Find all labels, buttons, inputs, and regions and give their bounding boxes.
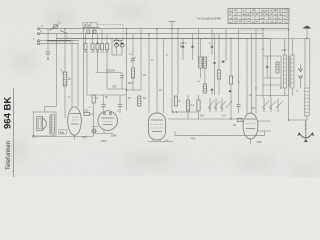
svg-text:400: 400 — [191, 136, 196, 140]
input terminal A2 — [38, 33, 40, 35]
label bracket under transformer — [59, 130, 87, 140]
wire — [288, 24, 290, 120]
wire stub E2 — [40, 43, 79, 45]
wire — [289, 119, 308, 121]
resistor R2 — [91, 29, 95, 54]
tube V4 CY2 — [238, 113, 271, 144]
svg-text:964 BK: 964 BK — [3, 97, 14, 129]
input terminal E2 — [38, 43, 40, 45]
svg-text:A: A — [41, 24, 43, 28]
input terminal A1 — [38, 28, 40, 30]
resistor R11 — [197, 95, 200, 119]
wire — [238, 29, 240, 100]
wire bus 3 — [57, 37, 270, 39]
wire row y=95 — [87, 94, 127, 96]
wire — [198, 29, 200, 62]
svg-text:V: V — [296, 89, 298, 93]
svg-text:0,1: 0,1 — [95, 96, 99, 100]
svg-text:0,5: 0,5 — [222, 114, 226, 118]
wire — [171, 22, 173, 96]
wire — [246, 38, 248, 113]
wire — [262, 29, 264, 98]
capacitor C14 — [101, 95, 105, 111]
wire — [86, 50, 88, 96]
wire speaker feed — [45, 107, 57, 113]
wire — [156, 29, 158, 113]
resistor R5 — [106, 34, 109, 54]
tuning capacitor C2 (dark pair) — [112, 40, 124, 55]
svg-text:360: 360 — [60, 130, 65, 134]
wire — [71, 41, 73, 107]
band switch label box — [83, 23, 123, 40]
svg-text:300/2W: 300/2W — [106, 69, 115, 73]
wire — [270, 38, 272, 98]
resistor R12 — [175, 96, 181, 106]
tube V3 CF7 — [148, 113, 173, 143]
IF transformer T1 — [199, 38, 207, 84]
trimmer C12 — [210, 88, 213, 95]
trimmer C6 — [191, 34, 194, 60]
capacitor C9 — [237, 100, 241, 113]
switch contacts S2 — [208, 98, 232, 112]
svg-text:+C: +C — [261, 47, 265, 51]
trimmer C10 — [213, 34, 216, 95]
wire — [140, 29, 142, 90]
choke L1 — [60, 69, 71, 119]
trimmer C11 — [221, 59, 225, 63]
capacitor C4 top — [169, 21, 176, 23]
svg-text:100: 100 — [84, 109, 89, 113]
rectifier V5 plates — [299, 64, 303, 88]
svg-text:300: 300 — [128, 81, 133, 85]
svg-text:C85: C85 — [257, 140, 262, 144]
wire — [77, 44, 79, 107]
wire — [47, 29, 49, 52]
wire bottom long — [175, 131, 265, 140]
wire — [225, 29, 227, 60]
wire bus 2 — [40, 33, 263, 35]
filter choke L2 — [305, 38, 309, 120]
capacitor C3 (trimmer) — [129, 34, 136, 68]
wire — [64, 29, 66, 72]
svg-text:0,5: 0,5 — [101, 50, 105, 54]
svg-text:Anl.Schaltbild 964BK: Anl.Schaltbild 964BK — [197, 17, 221, 21]
ground anchor — [297, 120, 314, 142]
tube V2 CBL1 — [92, 111, 118, 143]
labels cluster top-mid — [95, 96, 146, 100]
svg-text:350: 350 — [112, 85, 117, 89]
coil L3 — [138, 96, 141, 106]
svg-text:7F9: 7F9 — [82, 136, 87, 140]
trimmer C5 — [180, 38, 187, 60]
wire — [177, 29, 179, 95]
svg-text:0,1: 0,1 — [191, 103, 195, 107]
contact dots — [172, 111, 174, 113]
wire — [256, 95, 289, 97]
resistor R13 — [84, 109, 90, 116]
resistor R10 — [186, 95, 194, 119]
mains transformer T2 secondary — [288, 38, 294, 95]
wire right edge — [309, 38, 311, 88]
wire — [56, 34, 58, 107]
wire — [83, 29, 85, 113]
svg-text:0,1: 0,1 — [58, 21, 62, 25]
svg-text:1M: 1M — [200, 114, 204, 118]
resistor R4 — [101, 29, 105, 54]
capacitor C15 — [120, 73, 124, 90]
svg-text:mA: mA — [92, 129, 96, 133]
resistor R6 — [128, 68, 135, 90]
wire link — [127, 89, 142, 91]
svg-text:E: E — [40, 30, 42, 34]
switch contacts S3 — [262, 98, 283, 112]
title label Telefunken 964 BK (rotated, left margin) — [3, 88, 14, 177]
wire — [251, 34, 253, 114]
wire under-table — [240, 29, 288, 31]
wire — [111, 38, 113, 55]
terminal labels — [33, 24, 43, 41]
wire — [163, 38, 165, 113]
scattered value labels — [58, 21, 299, 128]
trimmer C13 — [228, 90, 231, 92]
coupling caps on bus — [87, 30, 96, 33]
IF coil L4 — [197, 80, 207, 93]
trimmer C7 — [209, 29, 214, 55]
svg-text:1364: 1364 — [111, 133, 117, 137]
svg-text:Telefunken: Telefunken — [6, 141, 12, 170]
resistor R1 — [84, 34, 87, 54]
input terminal E1 — [38, 40, 40, 42]
wire — [148, 34, 150, 113]
svg-text:Dr: Dr — [68, 77, 71, 81]
loudspeaker with output transformer — [33, 112, 56, 136]
svg-text:2M: 2M — [91, 50, 95, 54]
resistor R9 — [90, 95, 96, 136]
wire — [171, 95, 173, 112]
svg-text:CBW: CBW — [101, 139, 108, 143]
resistor R3 — [96, 34, 100, 54]
resistor R8 — [229, 38, 232, 119]
wire grid bus — [168, 118, 243, 120]
capacitor C1 — [46, 52, 51, 60]
capacitor C8 — [118, 95, 122, 113]
wire row y=72.5 — [96, 50, 123, 73]
wire bus 1 — [40, 28, 289, 30]
switch S1 (antenna circle+blade) — [50, 25, 69, 34]
wire stub E1 — [40, 40, 79, 42]
wire E1 heavy segment — [47, 40, 71, 42]
mains transformer T2 primary — [283, 38, 286, 95]
wire row y=89 — [107, 50, 127, 90]
wire — [126, 29, 128, 111]
resistor R7 — [217, 34, 220, 95]
svg-text:C/F: C/F — [165, 139, 170, 143]
voltage table (top right) — [228, 8, 289, 23]
svg-text:220: 220 — [282, 48, 287, 52]
wire — [172, 111, 197, 113]
tube V1 AL4 — [68, 107, 82, 140]
antenna symbol (top right) — [303, 26, 311, 39]
wire bottom left — [33, 134, 93, 137]
sub box right (tone circuit) — [255, 47, 281, 89]
wire — [255, 29, 257, 114]
